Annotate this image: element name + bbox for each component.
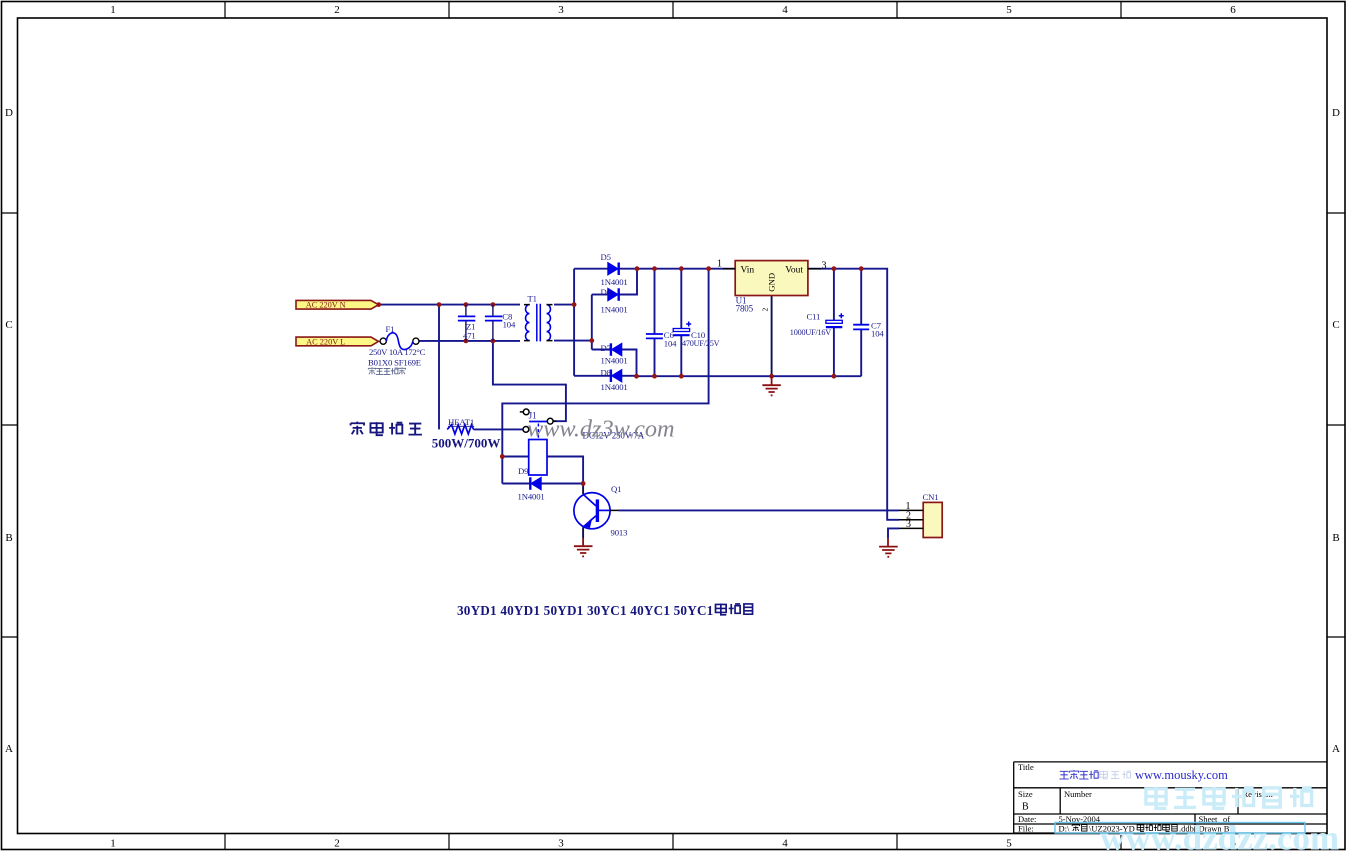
capacitor C10 polarized (673, 322, 691, 336)
capacitor C6 (646, 334, 663, 338)
svg-text:www.mousky.com: www.mousky.com (1135, 768, 1228, 782)
junction U1 GND at rail (769, 374, 774, 379)
resistor HEAT1 (447, 425, 473, 434)
svg-text:D: D (5, 107, 13, 119)
wire D5 anode lead (574, 268, 607, 270)
junction relay coil left / D9 cathode (500, 454, 505, 459)
svg-text:D:\: D:\ (1059, 824, 1071, 834)
svg-text:CN1: CN1 (923, 492, 939, 502)
svg-text:1N4001: 1N4001 (601, 277, 628, 287)
svg-text:D5: D5 (601, 252, 611, 262)
wire AC N from flag to T1 primary top (379, 304, 521, 306)
svg-text:AC 220V L: AC 220V L (306, 337, 345, 346)
fuse F1 (thermal) (380, 333, 419, 350)
diode D7 1N4001 (611, 343, 622, 356)
junction D5/D6 cathodes (635, 266, 640, 271)
watermark 电子电路图站 (light cyan) (1146, 787, 1166, 808)
svg-text:500W/700W: 500W/700W (432, 436, 501, 451)
label 安装于锅底 (368, 367, 375, 374)
svg-text:250V 10A 172°C: 250V 10A 172°C (369, 347, 426, 357)
transformer T1 (524, 304, 553, 342)
svg-text:3: 3 (906, 519, 911, 530)
svg-text:2: 2 (334, 4, 340, 16)
svg-text:30YD1 40YD1 50YD1 30YC1 40: 30YD1 40YD1 50YD1 30YC1 40YC1 50YC1 (457, 603, 713, 618)
svg-text:Date:: Date: (1018, 814, 1036, 824)
title block (1014, 762, 1327, 834)
wire Q1 collector lead (582, 484, 584, 495)
wire D8 anode lead (622, 375, 637, 377)
svg-text:C11: C11 (807, 312, 821, 322)
svg-text:C: C (5, 319, 12, 331)
junction T1 secondary top (572, 302, 577, 307)
svg-text:1N4001: 1N4001 (601, 305, 628, 315)
junction C6 top (652, 266, 657, 271)
wire D8 cathode lead (574, 375, 610, 377)
junction Q1 collector / D9 anode (581, 481, 586, 486)
svg-text:HEAT1: HEAT1 (448, 417, 474, 427)
wire CN1 pin3 to ground (888, 528, 899, 538)
connector CN1 (899, 502, 942, 537)
wire D6 anode lead (592, 294, 608, 296)
wire unregulated +12V down to relay coil and D9 (502, 269, 708, 484)
diode D9 1N4001 (530, 477, 541, 490)
svg-text:Q1: Q1 (611, 484, 621, 494)
junction C10 top (679, 266, 684, 271)
junction C8 bottom / relay branch (491, 339, 496, 344)
svg-text:1N4001: 1N4001 (601, 382, 628, 392)
junction D7/D8 anodes (634, 374, 639, 379)
wire D9 anode lead (541, 483, 583, 485)
wire HEAT1 right end to relay common (474, 428, 523, 430)
svg-text:5: 5 (1006, 838, 1012, 850)
svg-text:6: 6 (1230, 4, 1236, 16)
diode D5 1N4001 (608, 263, 619, 276)
wire C7 leads (860, 269, 862, 377)
svg-text:AC 220V N: AC 220V N (306, 301, 346, 310)
junction T1 secondary bottom (589, 338, 594, 343)
wire U1 Vout rail to CN1 pin2 (808, 269, 899, 520)
svg-text:F1: F1 (386, 324, 395, 334)
wire AC L from fuse to T1 primary bottom (419, 340, 520, 342)
wire Q1 base to CN1 pin1 (619, 509, 900, 511)
svg-text:D8: D8 (601, 368, 612, 378)
svg-text:4: 4 (782, 838, 788, 850)
wire C8 node down, over to relay NO contact (493, 341, 566, 421)
junction C10 bottom (679, 374, 684, 379)
diode D8 1N4001 (611, 370, 622, 383)
capacitor C11 polarized (826, 313, 844, 327)
junction Z1 bottom (464, 339, 469, 344)
wire C6 leads (654, 269, 656, 377)
svg-text:5: 5 (1006, 4, 1012, 16)
svg-text:B: B (1022, 802, 1029, 813)
svg-text:1N4001: 1N4001 (518, 492, 545, 502)
svg-text:B: B (5, 532, 12, 544)
watermark cyan box around file row (1055, 823, 1305, 834)
wire D6 cathode up to top rail (619, 269, 637, 295)
svg-text:C: C (1332, 319, 1339, 331)
svg-text:www.dz3w.com: www.dz3w.com (527, 416, 675, 443)
svg-text:D: D (1332, 107, 1340, 119)
varistor Z1 (458, 305, 475, 341)
capacitor C7 (853, 325, 869, 330)
wire D9 cathode lead (502, 483, 530, 485)
capacitor C8 (485, 305, 502, 341)
ground at CN1 pin3 (879, 538, 898, 557)
svg-text:Vout: Vout (785, 265, 803, 275)
junction C11 bottom (832, 374, 837, 379)
svg-text:9013: 9013 (611, 528, 628, 538)
wire Q1 emitter lead (582, 527, 584, 538)
svg-text:Number: Number (1064, 789, 1092, 799)
svg-text:104: 104 (664, 338, 677, 348)
svg-text:2: 2 (334, 838, 340, 850)
regulator U1 7805 (723, 261, 821, 296)
svg-text:B01X0 SF169E: B01X0 SF169E (368, 358, 421, 368)
label 底盘加热 (351, 422, 422, 436)
wire D7 anode down to bottom rail (622, 350, 637, 377)
svg-text:2: 2 (761, 308, 770, 312)
wire C10 leads (680, 269, 682, 377)
wire relay coil right down to Q1 collector node (547, 457, 583, 484)
svg-text:104: 104 (871, 328, 884, 338)
svg-text:3: 3 (558, 838, 564, 850)
port flag AC 220V L (296, 337, 379, 346)
svg-text:1: 1 (110, 4, 116, 16)
svg-text:A: A (5, 743, 13, 755)
diode D6 1N4001 (608, 288, 619, 301)
svg-text:471: 471 (463, 330, 476, 340)
svg-text:File:: File: (1018, 824, 1034, 834)
port flag AC 220V N (296, 300, 379, 309)
svg-text:Vin: Vin (741, 265, 755, 275)
svg-text:A: A (1332, 743, 1340, 755)
junction C11 top (832, 266, 837, 271)
svg-text:D7: D7 (601, 343, 612, 353)
junction C7 top (859, 266, 864, 271)
junction at AC N flag tip (376, 302, 381, 307)
ground at Q1 emitter (574, 538, 593, 556)
svg-text:1000UF/16V: 1000UF/16V (790, 328, 832, 337)
wire top rail bridge to U1 Vin (619, 268, 735, 270)
wire vertical AC N down to HEAT1 (438, 305, 440, 430)
junction AC N / HEAT1 branch (437, 302, 442, 307)
wire relay coil left to +12V vertical (502, 456, 528, 458)
wire U1 GND pin to rail (771, 296, 773, 377)
svg-text:7805: 7805 (736, 304, 754, 314)
svg-text:B: B (1332, 532, 1339, 544)
svg-text:4: 4 (782, 4, 788, 16)
junction C8 top (491, 302, 496, 307)
svg-text:1: 1 (110, 838, 116, 850)
wire C11 leads (833, 269, 835, 377)
title text 开发天地 www.mousky.com (1059, 771, 1068, 779)
svg-text:1N4001: 1N4001 (601, 356, 628, 366)
wire bottom ground rail (637, 375, 862, 377)
svg-text:3: 3 (822, 260, 827, 271)
transistor Q1 9013 (574, 493, 619, 529)
svg-text:Title: Title (1018, 762, 1034, 772)
svg-text:104: 104 (503, 320, 516, 330)
svg-text:470UF/25V: 470UF/25V (682, 339, 720, 348)
junction C6 bottom (652, 374, 657, 379)
junction +12V branch (706, 266, 711, 271)
svg-text:1: 1 (717, 259, 722, 270)
junction Z1 top (464, 302, 469, 307)
relay J1 (520, 409, 557, 475)
svg-text:Size: Size (1018, 789, 1033, 799)
svg-text:3: 3 (558, 4, 564, 16)
ground at U1 GND pin (762, 376, 780, 395)
svg-text:www.dzdzz.com: www.dzdzz.com (1100, 819, 1339, 851)
svg-text:GND: GND (767, 273, 777, 292)
svg-text:T1: T1 (528, 294, 537, 304)
wire T1 secondary top to bridge vertical (554, 269, 574, 376)
wire D7 cathode lead (592, 349, 611, 351)
wire T1 secondary bottom to D6/D7 vertical (554, 295, 592, 350)
svg-text:D6: D6 (601, 287, 612, 297)
svg-text:D9: D9 (518, 466, 528, 476)
junction dots (376, 266, 863, 486)
